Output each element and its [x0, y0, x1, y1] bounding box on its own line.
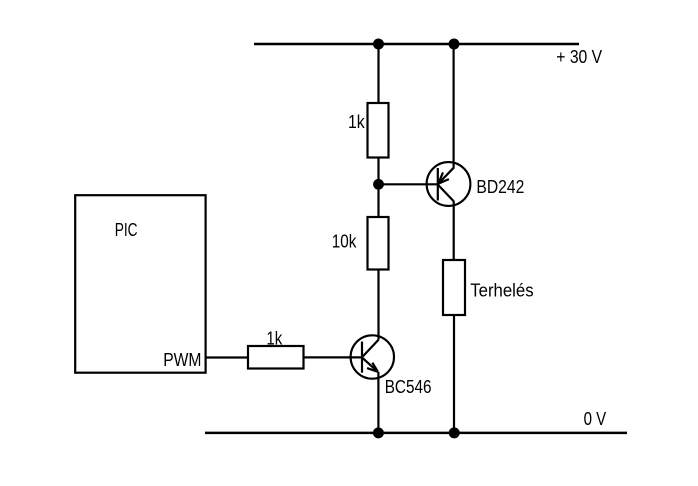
- junction R3 / +30V rail: [373, 39, 384, 50]
- svg-text:PIC: PIC: [115, 220, 138, 240]
- svg-text:0 V: 0 V: [584, 409, 607, 429]
- junction load / 0V rail: [449, 427, 460, 438]
- wire Q1 collector up to 10k: [377, 270, 379, 340]
- wire Q2 collector to load: [453, 201, 455, 260]
- svg-text:Terhelés: Terhelés: [470, 281, 533, 301]
- 0V rail: [205, 432, 627, 435]
- transistor Q2 BD242 (PNP): [427, 162, 471, 206]
- svg-text:PWM: PWM: [163, 350, 201, 370]
- +30V rail: [254, 43, 579, 46]
- svg-text:1k: 1k: [266, 328, 283, 348]
- wire load to 0V rail: [453, 315, 455, 433]
- wire 10k to node: [377, 184, 379, 217]
- svg-text:BC546: BC546: [385, 377, 432, 397]
- svg-text:BD242: BD242: [476, 177, 524, 197]
- transistor Q1 BC546 (NPN): [351, 335, 394, 378]
- wire R1 to Q1 base: [304, 356, 363, 358]
- wire R3 bottom to node: [377, 158, 379, 185]
- wire PWM pin to R base resistor: [206, 356, 248, 358]
- svg-text:10k: 10k: [332, 232, 357, 252]
- node junction between R2 and R3 and Q2 base: [373, 179, 384, 190]
- junction Q2 emitter / +30V rail: [449, 39, 460, 50]
- resistor R3 1k (vertical): [368, 103, 389, 158]
- svg-text:1k: 1k: [348, 112, 366, 132]
- wire Q1 emitter to 0V rail: [377, 372, 379, 433]
- resistor R4 Terhelés (load, vertical): [443, 260, 465, 315]
- IC U1 PIC box: [75, 195, 205, 373]
- wire R3 top to +30V rail: [377, 44, 379, 103]
- junction Q1 emitter / 0V rail: [373, 427, 384, 438]
- resistor R2 10k (vertical): [368, 217, 389, 270]
- resistor R1 1k (base, horizontal): [248, 346, 304, 369]
- wire +30V rail to Q2 emitter: [453, 44, 455, 169]
- svg-text:+ 30 V: + 30 V: [556, 47, 602, 67]
- wire node to Q2 base: [379, 183, 438, 185]
